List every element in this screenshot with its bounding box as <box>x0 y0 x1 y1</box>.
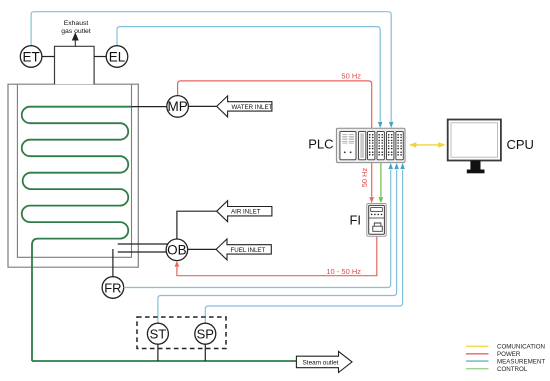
arrowhead into PLC bottom from FR <box>388 163 393 169</box>
svg-text:Exhaust: Exhaust <box>64 20 89 27</box>
wire power PLC to FI (red 50 Hz) <box>371 163 373 197</box>
link chimney-EL <box>94 56 106 58</box>
svg-text:Steam outlet: Steam outlet <box>303 359 339 366</box>
air inlet line to OB <box>177 211 217 239</box>
PLC rack <box>336 128 405 162</box>
pipe MP to water inlet <box>188 105 216 107</box>
sensor SP <box>195 323 216 344</box>
svg-text:ST: ST <box>150 327 167 342</box>
wire power MP to PLC (red 50 Hz) <box>178 81 372 128</box>
wire power FI to OB (red 10-50 Hz) <box>177 236 377 275</box>
wire measurement FR to PLC (blue) <box>124 170 391 288</box>
steam outlet arrow <box>296 351 352 372</box>
svg-text:FUEL INLET: FUEL INLET <box>231 247 266 254</box>
svg-text:COMUNICATION: COMUNICATION <box>497 344 545 351</box>
svg-text:SP: SP <box>197 327 214 342</box>
legend power <box>466 351 521 358</box>
steam outlet pipe (green) <box>32 360 296 362</box>
svg-text:MP: MP <box>167 99 187 114</box>
wire measurement ET to PLC (blue) <box>31 12 391 122</box>
sensor ET <box>20 46 42 68</box>
svg-text:FR: FR <box>104 280 121 295</box>
arrowhead into OB <box>175 261 180 267</box>
svg-text:AIR INLET: AIR INLET <box>231 209 261 216</box>
svg-text:PLC: PLC <box>308 137 333 152</box>
boiler outer shell <box>8 84 138 267</box>
arrowhead into PLC bottom from ST <box>394 163 399 169</box>
svg-text:10 - 50 Hz: 10 - 50 Hz <box>326 267 361 276</box>
CPU monitor <box>448 120 501 174</box>
sensor FR <box>102 277 124 299</box>
svg-text:OB: OB <box>167 243 187 258</box>
exhaust arrow <box>73 34 78 47</box>
svg-text:EL: EL <box>109 49 126 64</box>
fuel inlet arrow <box>216 239 271 260</box>
arrowhead into PLC top from EL <box>378 122 383 128</box>
heating coil (water tube serpentine) <box>22 107 132 361</box>
arrowhead into FI (red) <box>369 197 374 203</box>
svg-text:WATER INLET: WATER INLET <box>232 104 273 111</box>
sensor ST <box>147 323 168 344</box>
legend comunication <box>466 344 545 351</box>
arrowhead into FI (green) <box>379 197 384 203</box>
fuel inlet line to OB <box>188 248 216 250</box>
svg-text:50 Hz: 50 Hz <box>341 72 361 81</box>
wire comunication PLC-CPU (yellow double arrow) <box>409 142 446 148</box>
SP drop to steam pipe <box>204 344 206 361</box>
frequency inverter FI <box>367 204 386 237</box>
PLC blank module <box>359 132 366 160</box>
svg-text:FI: FI <box>349 213 361 228</box>
legend measurement <box>466 358 545 365</box>
svg-text:ET: ET <box>22 49 39 64</box>
link ET-chimney <box>42 56 55 58</box>
svg-text:50 Hz: 50 Hz <box>360 167 369 187</box>
arrowhead into PLC top from ET <box>389 122 394 128</box>
wire control PLC to FI (green) <box>380 163 382 197</box>
PLC IO modules <box>368 132 375 160</box>
wire measurement ST to PLC (blue) <box>158 170 397 323</box>
sensor EL <box>106 46 128 68</box>
ST drop to steam pipe <box>157 344 159 361</box>
chimney box <box>55 46 95 84</box>
wire measurement EL to PLC (blue) <box>117 27 380 122</box>
FR riser into boiler <box>112 249 114 277</box>
wire measurement SP to PLC (blue) <box>205 170 402 323</box>
PLC CPU module <box>340 132 356 160</box>
air inlet arrow <box>217 201 272 222</box>
burner OB <box>166 239 188 261</box>
svg-text:MEASUREMENT: MEASUREMENT <box>497 358 545 365</box>
svg-text:POWER: POWER <box>497 351 521 358</box>
legend control <box>466 366 528 373</box>
dashed instrument box <box>137 317 226 349</box>
boiler inner wall <box>17 84 131 257</box>
pipe boiler to MP <box>132 106 167 108</box>
arrowhead into PLC bottom from SP <box>400 163 405 169</box>
svg-text:CPU: CPU <box>507 137 534 152</box>
svg-text:gas outlet: gas outlet <box>61 28 91 35</box>
svg-text:CONTROL: CONTROL <box>497 366 528 373</box>
burner lines OB to boiler <box>118 244 168 252</box>
water inlet arrow <box>217 96 273 117</box>
sensor MP <box>167 96 189 118</box>
